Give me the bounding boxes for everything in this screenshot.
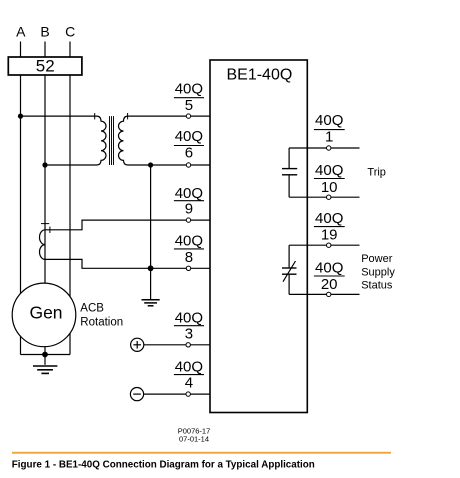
svg-text:52: 52 [36, 56, 55, 75]
svg-text:9: 9 [185, 201, 193, 218]
svg-text:Status: Status [361, 280, 393, 292]
svg-text:B: B [40, 23, 49, 39]
svg-text:BE1-40Q: BE1-40Q [226, 67, 292, 84]
svg-text:Power: Power [361, 253, 393, 265]
svg-text:6: 6 [185, 145, 193, 162]
svg-text:40Q: 40Q [315, 162, 343, 179]
svg-text:19: 19 [321, 227, 338, 244]
svg-text:20: 20 [321, 276, 338, 293]
svg-text:3: 3 [185, 325, 193, 342]
svg-text:C: C [65, 23, 75, 39]
svg-text:40Q: 40Q [315, 259, 343, 276]
svg-text:8: 8 [185, 249, 193, 266]
svg-text:40Q: 40Q [315, 112, 343, 129]
svg-text:40Q: 40Q [175, 185, 203, 202]
svg-text:40Q: 40Q [175, 128, 203, 145]
svg-text:40Q: 40Q [175, 309, 203, 326]
svg-text:40Q: 40Q [175, 233, 203, 250]
svg-text:Gen: Gen [29, 303, 62, 323]
svg-text:5: 5 [185, 97, 193, 114]
svg-text:4: 4 [185, 375, 193, 392]
svg-text:Rotation: Rotation [80, 317, 123, 329]
svg-text:1: 1 [325, 129, 333, 146]
svg-text:A: A [16, 23, 26, 39]
svg-text:40Q: 40Q [175, 358, 203, 375]
svg-text:07-01-14: 07-01-14 [179, 435, 209, 444]
svg-text:Figure 1 - BE1-40Q Connection: Figure 1 - BE1-40Q Connection Diagram fo… [12, 459, 315, 470]
svg-text:10: 10 [321, 179, 338, 196]
svg-text:Trip: Trip [367, 166, 386, 178]
svg-text:Supply: Supply [361, 266, 395, 278]
svg-text:40Q: 40Q [315, 210, 343, 227]
svg-text:40Q: 40Q [175, 80, 203, 97]
svg-text:ACB: ACB [80, 302, 104, 314]
